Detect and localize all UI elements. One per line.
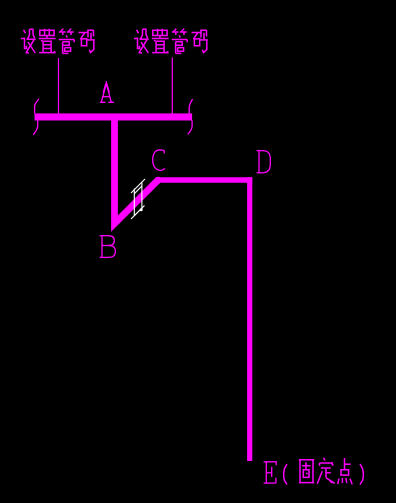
break squiggle right (188, 99, 193, 134)
leader wire left (58, 58, 60, 114)
node E label (264, 462, 277, 483)
leader wire right (171, 57, 173, 113)
label 设置管码 (right) (134, 29, 208, 54)
pipe drop D-E (thick vertical) (247, 177, 252, 461)
pipe drop and riser A-B-C (thick) (115, 117, 160, 224)
node A label (100, 81, 114, 102)
node B label (100, 236, 116, 258)
pipe header bar A (thick horizontal) (35, 113, 193, 120)
node D label (257, 151, 271, 173)
break squiggle left (33, 99, 39, 135)
node C label (153, 150, 165, 170)
pipe break symbol (white) on riser B-C (131, 179, 145, 219)
junction dot on break symbol (140, 208, 143, 211)
pipe run C-D (thick horizontal) (156, 177, 252, 183)
label 设置管码 (left) (21, 29, 95, 54)
label （固定点） (284, 464, 287, 485)
